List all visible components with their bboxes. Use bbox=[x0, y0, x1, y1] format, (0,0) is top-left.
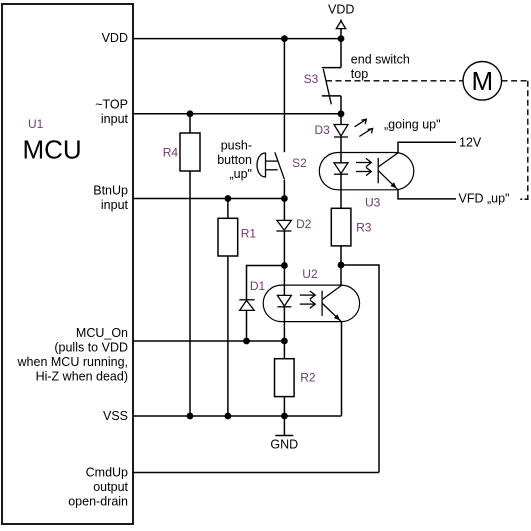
svg-text:(pulls to VDD: (pulls to VDD bbox=[54, 341, 128, 355]
wire U2 collector bbox=[340, 265, 342, 285]
U2 phototransistor bbox=[322, 285, 341, 322]
node D2-U2LED junction bbox=[281, 262, 288, 269]
wire R4 to VSS bbox=[189, 171, 191, 416]
svg-text:~TOP: ~TOP bbox=[95, 97, 128, 111]
wire U2 LED cathode to MCU_On bbox=[283, 307, 285, 341]
svg-text:U1: U1 bbox=[28, 117, 44, 131]
resistor R3 bbox=[331, 208, 351, 246]
svg-text:„up": „up" bbox=[229, 167, 252, 181]
svg-text:push-: push- bbox=[221, 139, 252, 153]
dashed wire to VFD bbox=[525, 198, 529, 200]
svg-text:D1: D1 bbox=[250, 279, 266, 293]
U3 phototransistor bbox=[378, 153, 398, 190]
wire S2 top from VDD bbox=[283, 39, 285, 153]
wire U2 emitter to VSS bbox=[341, 322, 343, 416]
svg-text:S2: S2 bbox=[292, 156, 307, 170]
wire U3 emitter to VFD bbox=[398, 190, 456, 199]
wire D1 bottom bbox=[246, 310, 248, 341]
svg-text:BtnUp: BtnUp bbox=[93, 184, 128, 198]
svg-text:U2: U2 bbox=[302, 267, 318, 281]
svg-text:GND: GND bbox=[270, 437, 298, 451]
svg-text:CmdUp: CmdUp bbox=[86, 466, 128, 480]
node BtnUp-R1 junction bbox=[225, 195, 232, 202]
wire MCU_On node to R2 bbox=[283, 341, 285, 359]
wire S3 to D3 bbox=[340, 114, 342, 125]
U3 coupling arrows bbox=[356, 158, 371, 175]
wire U3 collector to 12V bbox=[398, 142, 456, 152]
switch S3 end switch top bbox=[322, 39, 341, 114]
wire U2 LED anode bbox=[283, 266, 285, 296]
svg-text:Hi-Z when dead): Hi-Z when dead) bbox=[36, 370, 128, 384]
svg-text:S3: S3 bbox=[304, 72, 319, 86]
diode D3 (LED) bbox=[334, 125, 348, 138]
resistor R4 bbox=[180, 133, 200, 171]
svg-text:output: output bbox=[93, 480, 128, 494]
wire BtnUp pin bbox=[133, 198, 284, 200]
svg-text:when MCU running,: when MCU running, bbox=[17, 355, 128, 369]
wire R2 to VSS bbox=[283, 397, 285, 416]
svg-text:VDD: VDD bbox=[102, 31, 128, 45]
svg-text:R4: R4 bbox=[163, 146, 179, 160]
U3 LED bbox=[334, 163, 348, 174]
dashed wire right vertical bbox=[527, 81, 529, 199]
resistor R1 bbox=[218, 218, 238, 256]
node VSS-R4 junction bbox=[187, 413, 194, 420]
svg-text:M: M bbox=[471, 66, 493, 96]
svg-text:top: top bbox=[351, 67, 368, 81]
resistor R2 bbox=[275, 359, 295, 397]
svg-text:D2: D2 bbox=[296, 217, 312, 231]
svg-text:VDD: VDD bbox=[328, 3, 354, 17]
svg-text:VFD „up": VFD „up" bbox=[459, 191, 510, 205]
svg-text:MCU: MCU bbox=[23, 135, 82, 165]
svg-text:open-drain: open-drain bbox=[68, 495, 128, 509]
node BtnUp-S2-D2 junction bbox=[281, 195, 288, 202]
wire D2 to U2 LED node bbox=[283, 231, 285, 266]
svg-text:MCU_On: MCU_On bbox=[76, 326, 128, 340]
wire node to D1 bbox=[247, 265, 285, 267]
svg-text:R3: R3 bbox=[356, 221, 372, 235]
svg-text:end switch: end switch bbox=[351, 53, 410, 67]
wire VDD pin bbox=[133, 38, 341, 40]
svg-text:R1: R1 bbox=[241, 226, 257, 240]
svg-text:VSS: VSS bbox=[103, 409, 128, 423]
wire ~TOP pin bbox=[133, 113, 341, 115]
wire U3 LED to R3 bbox=[340, 174, 342, 208]
node VDD-S3 junction bbox=[338, 35, 345, 42]
optocoupler U3 body bbox=[319, 153, 414, 190]
U2 coupling arrows bbox=[300, 291, 315, 308]
node R3-U2collector junction bbox=[338, 262, 345, 269]
svg-text:U3: U3 bbox=[365, 195, 381, 209]
diode D1 (reverse) bbox=[239, 300, 254, 311]
U2 LED bbox=[277, 295, 291, 306]
svg-text:R2: R2 bbox=[300, 370, 316, 384]
wire VSS pin bbox=[133, 415, 342, 417]
node MCU_On-R2 junction bbox=[281, 338, 288, 345]
svg-text:„going up": „going up" bbox=[384, 117, 441, 131]
dashed actuator wire S3 to motor bbox=[326, 80, 463, 82]
node ~TOP-R4 junction bbox=[187, 110, 194, 117]
optocoupler U2 body bbox=[263, 285, 359, 322]
push-button S2 bbox=[257, 152, 285, 179]
light arrows going up bbox=[355, 119, 373, 136]
wire S2 bottom bbox=[283, 180, 285, 220]
node VSS-GND junction bbox=[281, 413, 288, 420]
svg-text:button: button bbox=[217, 153, 252, 167]
motor M bbox=[463, 62, 502, 101]
node ~TOP-S3 junction bbox=[338, 110, 345, 117]
svg-text:input: input bbox=[101, 112, 129, 126]
node VSS-R1 junction bbox=[225, 413, 232, 420]
MCU U1 box bbox=[2, 4, 133, 524]
wire MCU_On pin bbox=[133, 340, 284, 342]
wire R4 top bbox=[189, 114, 191, 133]
node VDD-S2 junction bbox=[281, 35, 288, 42]
node D1-MCU_On junction bbox=[243, 338, 250, 345]
wire R1 top bbox=[227, 199, 229, 219]
wire VDD arrow stem bbox=[340, 29, 342, 39]
wire junction to CmdUp bbox=[341, 265, 379, 473]
svg-text:input: input bbox=[101, 198, 129, 212]
dashed wire motor right bbox=[502, 80, 528, 82]
wire CmdUp pin bbox=[133, 472, 379, 474]
wire R3 to junction bbox=[340, 246, 342, 265]
svg-text:D3: D3 bbox=[315, 123, 331, 137]
wire D1 top bbox=[246, 265, 248, 299]
svg-text:12V: 12V bbox=[459, 136, 482, 150]
ground symbol bbox=[283, 416, 285, 435]
wire R1 to VSS bbox=[227, 256, 229, 416]
wire D3 to U3 LED bbox=[340, 137, 342, 163]
diode D2 bbox=[276, 220, 291, 231]
